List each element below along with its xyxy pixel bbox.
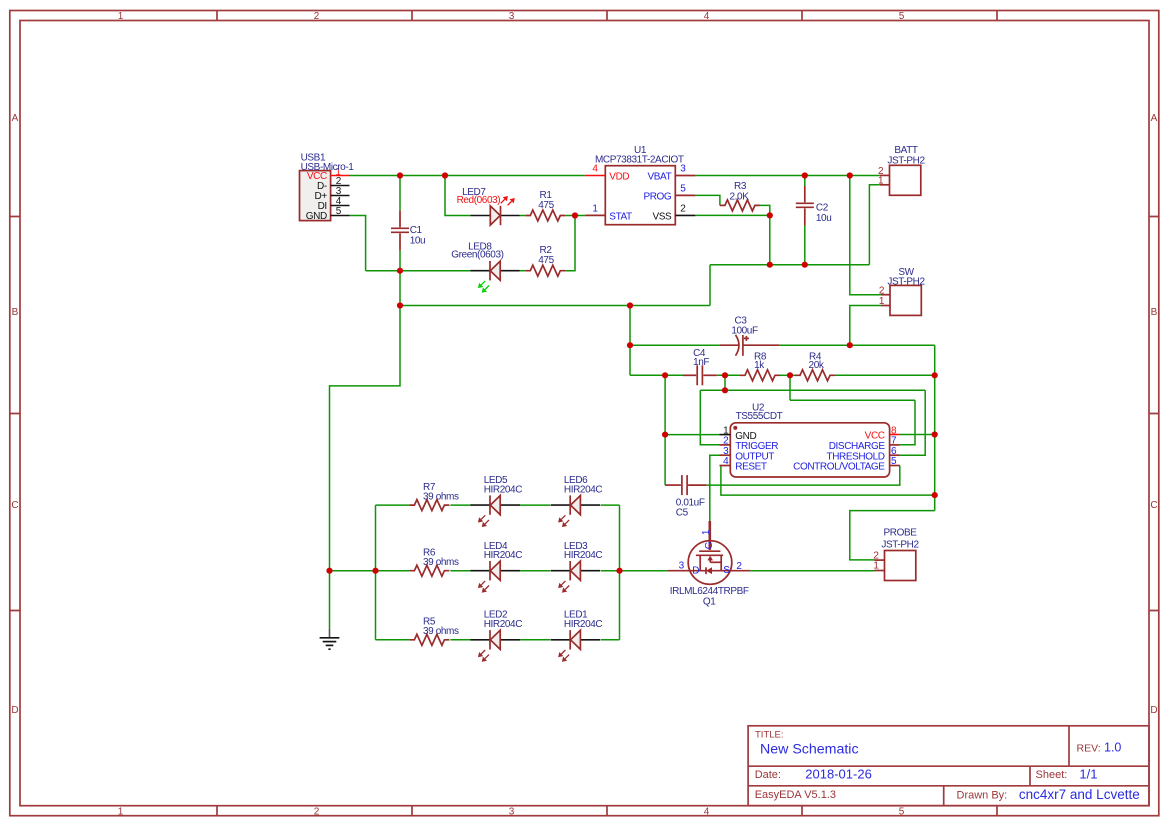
Q1 drain-source line [667, 570, 750, 572]
junction mid rail x400 [397, 302, 403, 308]
svg-text:1: 1 [592, 203, 598, 214]
Q1 bulk arrow [707, 556, 713, 561]
svg-text:1: 1 [118, 807, 124, 818]
capacitor C4 [683, 348, 717, 385]
USB1 pin numbers [335, 167, 341, 217]
svg-text:HIR204C: HIR204C [484, 550, 523, 561]
svg-text:5: 5 [899, 11, 905, 22]
svg-text:C1: C1 [410, 225, 423, 236]
LED8 arrows [479, 281, 489, 292]
svg-text:1: 1 [873, 561, 879, 572]
junction mid rail x630 [627, 302, 633, 308]
wire C2 top stub [804, 176, 806, 187]
wire U1 VSS to junction [695, 214, 769, 216]
svg-text:HIR204C: HIR204C [564, 485, 603, 496]
svg-text:CONTROL/VOLTAGE: CONTROL/VOLTAGE [793, 462, 885, 473]
wire VBAT down to SW pin2 [850, 176, 881, 295]
wire to U2 THRESHOLD [900, 390, 925, 455]
wire vertical x630 mid rail to C4 rail [629, 306, 631, 376]
U1 pin 1 STAT [585, 214, 605, 216]
wire SW pin1 down to C3 rail [850, 306, 881, 346]
svg-text:2: 2 [680, 203, 686, 214]
U1 pin 5 PROG [675, 194, 695, 196]
USB1 pin 1 lead [331, 175, 350, 177]
Q1 gate bar [699, 550, 720, 552]
svg-text:PROBE: PROBE [883, 528, 917, 539]
junction trig rail [722, 387, 728, 393]
connector USB1 [300, 152, 355, 222]
transistor Q1 IRLML6244TRPBF [667, 521, 750, 607]
svg-text:2: 2 [879, 285, 885, 296]
connector SW JST-PH2 [879, 267, 926, 316]
svg-text:Drawn By:: Drawn By: [957, 790, 1008, 802]
wire VSS junction down to BATT- rail [769, 215, 771, 264]
wire R3 right down to VSS net [760, 205, 770, 215]
wire LED7 branch down from VBUS [445, 176, 471, 216]
LED7 arrows [501, 197, 514, 205]
junction array right mid [616, 568, 622, 574]
wire C4-R8 segment [717, 374, 740, 376]
wire row3 segments [376, 639, 410, 641]
U2 pin 5 CONTROL/VOLTAGE [890, 465, 900, 467]
junction BATT- rail R3 [767, 262, 773, 268]
svg-text:5: 5 [336, 206, 342, 217]
svg-text:1: 1 [878, 176, 884, 187]
LED2 [471, 630, 521, 661]
svg-text:G: G [704, 541, 715, 549]
svg-text:1.0: 1.0 [1104, 741, 1121, 755]
svg-text:PROG: PROG [643, 191, 671, 202]
wire C5 right to U2 CONTROL [706, 466, 899, 486]
title block [748, 726, 1149, 806]
junction VBAT-SW [847, 172, 853, 178]
U2 pin 1 GND [720, 434, 731, 436]
junction C4 rail C5 [662, 372, 668, 378]
junction GND-C1 [397, 268, 403, 274]
connector BATT JST-PH2 [878, 145, 926, 195]
svg-text:JST-PH2: JST-PH2 [881, 539, 919, 550]
wire VCC vertical x934.7 [934, 345, 936, 510]
U2 pin 6 THRESHOLD [890, 454, 900, 456]
LED5 [471, 495, 521, 526]
U2 pin1 marker [733, 426, 737, 430]
svg-text:A: A [1151, 113, 1158, 124]
resistor R6 [409, 565, 449, 576]
svg-text:39 ohms: 39 ohms [423, 491, 459, 502]
svg-text:HIR204C: HIR204C [564, 619, 603, 630]
resistor R5 [409, 634, 449, 645]
svg-text:VBAT: VBAT [648, 171, 672, 182]
wire U2 OUTPUT down to Q1 gate [710, 455, 720, 521]
LED7 [457, 187, 520, 225]
C3 plus sign [744, 336, 749, 341]
wire mid rail down jog to ground symbol [330, 306, 401, 629]
wire C3 right rail to VCC vertical [780, 344, 935, 346]
svg-text:3: 3 [509, 11, 515, 22]
svg-text:A: A [12, 113, 19, 124]
SW pin 1 lead [881, 305, 890, 307]
USB1 pin 5 lead [331, 215, 350, 217]
wire U1 PROG to R3 [695, 195, 720, 205]
U2 pin 3 OUTPUT [720, 454, 731, 456]
wire R2 right up to STAT node [565, 216, 575, 271]
svg-text:1/1: 1/1 [1079, 766, 1097, 781]
capacitor C2 [796, 186, 832, 226]
svg-text:10u: 10u [816, 213, 832, 224]
svg-text:TS555CDT: TS555CDT [736, 411, 783, 422]
svg-text:20k: 20k [809, 360, 825, 371]
svg-text:MCP73831T-2ACIOT: MCP73831T-2ACIOT [595, 155, 684, 166]
svg-text:1: 1 [879, 296, 885, 307]
wire LED array to Q1 drain [620, 570, 668, 572]
resistor R4 [795, 352, 835, 381]
wire trig-thres rail [700, 389, 925, 391]
svg-text:Q1: Q1 [703, 596, 716, 607]
svg-text:Sheet:: Sheet: [1036, 769, 1068, 781]
svg-text:100uF: 100uF [731, 325, 758, 336]
LED3 [551, 561, 601, 592]
junction STAT node [572, 212, 578, 218]
wire C1 bottom junction down to mid rail [399, 271, 401, 306]
wire GND row to LED8 [366, 270, 471, 272]
LED8 [451, 241, 520, 292]
svg-text:475: 475 [538, 255, 554, 266]
svg-text:C: C [1150, 500, 1157, 511]
svg-text:Green(0603): Green(0603) [451, 249, 503, 260]
svg-text:475: 475 [538, 200, 554, 211]
wire row1 segments [376, 504, 410, 506]
LED1 [551, 630, 601, 661]
Q1 gate lead [708, 521, 711, 550]
svg-text:3: 3 [679, 561, 685, 572]
junction VBUS-C1 [397, 172, 403, 178]
wire LED8 to R2 [520, 270, 526, 272]
resistor R3 [720, 181, 760, 211]
junction array left mid [372, 568, 378, 574]
svg-text:1k: 1k [754, 360, 765, 371]
junction BATT- rail C2 [802, 262, 808, 268]
Q1 bulk-source link [710, 561, 721, 563]
junction R8-R4 node [787, 372, 793, 378]
wire row2 segments [376, 570, 410, 572]
wire to U2 DISCHARGE [900, 400, 915, 445]
wire C1 top from VBUS junction [399, 176, 401, 211]
svg-text:cnc4xr7 and Lcvette: cnc4xr7 and Lcvette [1019, 787, 1140, 802]
svg-text:D: D [692, 565, 699, 576]
connector PROBE JST-PH2 [873, 528, 919, 581]
wire VBAT net U1 to BATT pin2 [695, 175, 879, 177]
svg-text:4: 4 [592, 164, 598, 175]
wire discharge link down [789, 375, 791, 400]
svg-text:S: S [723, 565, 730, 576]
svg-text:TITLE:: TITLE: [755, 730, 784, 741]
junction VBUS-LED7 [442, 172, 448, 178]
svg-text:HIR204C: HIR204C [564, 550, 603, 561]
svg-text:GND: GND [306, 211, 327, 222]
wire mid rail y305 [400, 305, 710, 307]
junction ground-array [326, 568, 332, 574]
junction U2 VCC [932, 431, 938, 437]
USB1 pin names [306, 171, 328, 222]
wire VCC down to PROBE pin2 [850, 511, 935, 560]
U2 pin 2 TRIGGER [720, 444, 731, 446]
svg-text:B: B [12, 307, 19, 318]
BATT pin 1 lead [880, 184, 890, 186]
wire VBUS from USB1 pin1 to U1 VDD [350, 175, 585, 177]
svg-text:1nF: 1nF [693, 357, 709, 368]
wire BATT- rail down to mid rail [709, 265, 711, 306]
svg-text:USB-Micro-1: USB-Micro-1 [301, 162, 355, 173]
wire trig-thres link down [724, 375, 726, 390]
svg-text:D: D [11, 705, 18, 716]
wire LED7 to R1 [520, 215, 526, 217]
wire USB GND pin down [350, 216, 366, 271]
IC U2 TS555CDT [720, 402, 900, 477]
ground [320, 629, 340, 649]
svg-text:C2: C2 [816, 203, 829, 214]
U1 pin 2 VSS [675, 214, 695, 216]
svg-text:STAT: STAT [609, 211, 632, 222]
svg-text:JST-PH2: JST-PH2 [887, 155, 925, 166]
wire Q1 source to PROBE pin1 [750, 570, 874, 572]
wire BATT- rail up to BATT pin1 [869, 185, 879, 265]
junction C3 left [627, 342, 633, 348]
capacitor C5 [665, 475, 706, 518]
USB1 pin 3 lead [331, 195, 350, 197]
wire U2 VCC pin to vertical [900, 434, 935, 436]
svg-text:B: B [1151, 307, 1158, 318]
BATT pin 2 lead [880, 174, 890, 176]
Q1 channel bar [696, 554, 723, 556]
wire U2 RESET to VCC vertical [721, 466, 935, 496]
wire R8-R4 segment [780, 374, 795, 376]
Q1 source stub [720, 555, 722, 570]
svg-text:1: 1 [118, 11, 124, 22]
wire discharge rail [790, 399, 915, 401]
svg-text:VDD: VDD [609, 171, 629, 182]
wire C1 bottom stub [399, 251, 401, 271]
SW pin 2 lead [881, 294, 890, 296]
svg-text:R3: R3 [734, 181, 747, 192]
svg-text:D: D [1150, 705, 1157, 716]
svg-text:Red(0603): Red(0603) [457, 195, 501, 206]
PROBE pin 2 lead [875, 559, 885, 561]
svg-text:C5: C5 [676, 508, 689, 519]
LED4 [471, 561, 521, 592]
Q1 bulk stub [709, 560, 711, 563]
junction RESET-VCC [932, 492, 938, 498]
svg-text:New Schematic: New Schematic [760, 742, 859, 758]
junction R4-VCC [932, 372, 938, 378]
U2 pin 7 DISCHARGE [890, 444, 900, 446]
LED6 [551, 495, 601, 526]
resistor R2 [525, 245, 565, 276]
svg-text:4: 4 [704, 11, 710, 22]
wire R4 right to VCC vertical [835, 374, 935, 376]
junction VBAT-C2 [802, 172, 808, 178]
U1 pin 4 VDD [585, 175, 606, 177]
svg-text:2: 2 [736, 561, 742, 572]
USB1 pin 2 lead [331, 185, 350, 187]
U1 pin 3 VBAT [675, 175, 695, 177]
svg-text:3: 3 [680, 164, 686, 175]
svg-text:HIR204C: HIR204C [484, 619, 523, 630]
svg-text:EasyEDA V5.1.3: EasyEDA V5.1.3 [755, 789, 836, 801]
wire LED array left vertical [375, 505, 377, 640]
svg-text:39 ohms: 39 ohms [423, 557, 459, 568]
svg-text:5: 5 [899, 807, 905, 818]
resistor R8 [740, 352, 780, 381]
wire U2 GND to left vertical [665, 434, 719, 436]
resistor R7 [409, 500, 449, 511]
svg-text:VCC: VCC [865, 431, 885, 442]
svg-text:5: 5 [891, 456, 897, 467]
U2 pin 4 RESET [720, 465, 731, 467]
wire C4 rail left segment [630, 374, 683, 376]
svg-text:2.0K: 2.0K [730, 192, 750, 203]
wire BATT- rail horizontal [710, 264, 869, 266]
svg-text:2: 2 [314, 807, 320, 818]
svg-text:2: 2 [314, 11, 320, 22]
wire LED array right vertical [619, 505, 621, 640]
junction C3 right SW [847, 342, 853, 348]
svg-text:1: 1 [701, 529, 712, 535]
svg-text:HIR204C: HIR204C [484, 485, 523, 496]
U2 pin 8 VCC [890, 434, 900, 436]
Q1 body diode [706, 567, 712, 574]
wire to U2 TRIGGER [700, 390, 719, 445]
wire STAT node to U1 STAT [565, 215, 585, 217]
IC U1 MCP73831T [585, 145, 696, 225]
wire C2 bottom to BATT- rail [804, 226, 806, 265]
Q1 drain stub [699, 555, 701, 570]
svg-text:Date:: Date: [755, 769, 781, 781]
wire ground branch to LED array left [330, 570, 376, 572]
junction U2 GND [662, 432, 668, 438]
svg-text:10u: 10u [410, 235, 426, 246]
svg-text:3: 3 [509, 807, 515, 818]
svg-text:4: 4 [704, 807, 710, 818]
resistor R1 [525, 190, 565, 221]
wire C5 left vertical from C4 rail [664, 375, 666, 485]
svg-text:VSS: VSS [652, 211, 672, 222]
svg-text:2018-01-26: 2018-01-26 [805, 766, 872, 781]
wire C3 left rail [630, 344, 720, 346]
junction VSS-R3 [767, 212, 773, 218]
svg-text:REV:: REV: [1077, 743, 1101, 755]
capacitor C3 100uF polarized [720, 315, 780, 356]
svg-text:4: 4 [723, 456, 729, 467]
svg-text:C: C [11, 500, 18, 511]
USB1 pin 4 lead [331, 205, 350, 207]
svg-text:RESET: RESET [735, 462, 767, 473]
svg-text:39 ohms: 39 ohms [423, 626, 459, 637]
capacitor C1 [391, 210, 425, 250]
junction C4-R8 node [722, 372, 728, 378]
PROBE pin 1 lead [875, 570, 885, 572]
svg-text:JST-PH2: JST-PH2 [887, 277, 925, 288]
svg-text:5: 5 [680, 183, 686, 194]
